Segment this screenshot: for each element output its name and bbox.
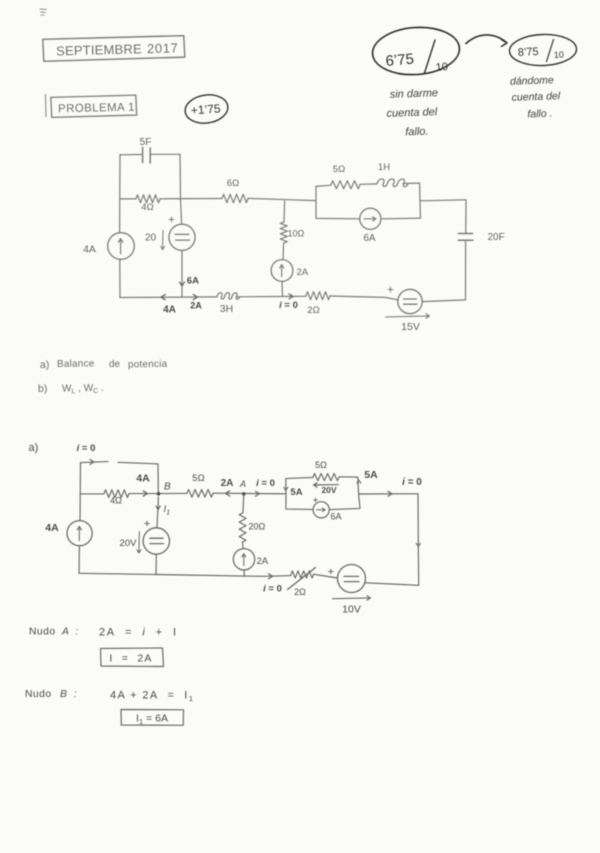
wire: circuit1 left vertical — [119, 155, 121, 298]
svg-text:I = 2A: I = 2A — [109, 653, 152, 665]
svg-text:b): b) — [38, 383, 48, 395]
wire: block to right vertical (circuit1) — [420, 200, 466, 201]
current source 6A (circuit2 block) — [313, 498, 341, 521]
current source 2A (circuit2) — [233, 549, 268, 570]
svg-text:A :: A : — [61, 627, 80, 638]
svg-text:20F: 20F — [488, 232, 505, 243]
wire: circuit1 top — [120, 153, 180, 156]
svg-text:20V: 20V — [321, 485, 336, 495]
svg-text:4Ω: 4Ω — [141, 202, 153, 213]
wire: 20V branch upper — [181, 199, 182, 225]
equation Nudo A — [29, 627, 178, 639]
resistor 2ohm crossed out (circuit2) — [288, 568, 316, 598]
svg-text:2A: 2A — [190, 301, 202, 311]
svg-text:sin darme: sin darme — [390, 87, 439, 101]
svg-text:4A: 4A — [45, 522, 59, 534]
wire: circuit2 left vertical — [79, 463, 81, 574]
svg-text:Nudo: Nudo — [29, 627, 56, 638]
svg-text:15V: 15V — [401, 321, 420, 333]
svg-text:5A: 5A — [290, 487, 302, 498]
wire: circuit2 right vertical — [416, 494, 420, 586]
svg-text:2Ω: 2Ω — [294, 587, 306, 597]
svg-text:3H: 3H — [220, 303, 233, 315]
svg-text:A: A — [239, 479, 246, 489]
voltage source 10V (circuit2) — [329, 565, 371, 616]
note dandome cuenta del fallo — [510, 74, 561, 120]
current arrow I1 (circuit2) — [156, 497, 170, 517]
svg-text:PROBLEMA 1: PROBLEMA 1 — [58, 102, 135, 116]
wire: 2A source to bottom (circuit2) — [243, 570, 245, 576]
resistor 20ohm (circuit2) — [239, 513, 265, 542]
current source 2A (circuit1) — [271, 260, 309, 282]
question b) WL WC — [38, 383, 104, 396]
svg-text:i = 0: i = 0 — [279, 300, 298, 311]
svg-text:8’75: 8’75 — [518, 46, 539, 59]
current source 4A (circuit2) — [45, 521, 92, 546]
boxed result I1 = 6A — [121, 710, 184, 727]
label i=0 (circuit2 right) — [402, 477, 422, 488]
svg-text:fallo.: fallo. — [405, 126, 429, 139]
points bubble +1'75 — [183, 92, 229, 126]
resistor 6ohm (circuit1) — [222, 178, 248, 203]
current arrow 2A (circuit1 bottom) — [190, 294, 202, 310]
svg-text:2A: 2A — [257, 556, 269, 567]
current label 5A right (circuit2 block) — [357, 469, 378, 483]
resistor 5ohm (circuit2 main) — [187, 473, 213, 497]
current arrow i=0 (circuit2 bottom) — [263, 574, 282, 595]
svg-text:10Ω: 10Ω — [288, 229, 305, 239]
problem box PROBLEMA 1 — [46, 95, 137, 118]
node B — [157, 482, 171, 496]
svg-text:10V: 10V — [342, 604, 361, 616]
current arrow i=0 (circuit2 top) — [77, 443, 96, 464]
resistor 10ohm (circuit1) — [280, 222, 304, 243]
wire: 20V source to bottom (circuit2) — [155, 554, 157, 574]
wire: 20V branch lower — [181, 250, 183, 297]
wire: circuit2 open top branch — [81, 462, 159, 494]
wire: cap-loop right vertical — [179, 154, 182, 198]
wire: circuit2 bottom — [79, 573, 419, 585]
svg-text:fallo .: fallo . — [527, 108, 553, 121]
resistor 5ohm (circuit2 block) — [313, 460, 339, 481]
wire: circuit1 second horizontal — [120, 198, 316, 200]
svg-text:cuenta del: cuenta del — [511, 90, 561, 104]
svg-text:20V: 20V — [120, 538, 138, 549]
equation Nudo B — [25, 689, 194, 703]
voltage source 20V (circuit1) — [145, 217, 195, 250]
svg-text:2A: 2A — [297, 267, 309, 278]
boxed result I = 2A — [101, 648, 164, 667]
svg-text:20Ω: 20Ω — [249, 522, 266, 532]
svg-text:6A: 6A — [363, 233, 376, 244]
svg-text:i = 0: i = 0 — [263, 584, 282, 595]
svg-text:10: 10 — [554, 49, 565, 60]
wire: node A down — [242, 494, 243, 549]
svg-text:6Ω: 6Ω — [227, 178, 239, 189]
svg-text:i = 0: i = 0 — [402, 477, 422, 488]
current label 5A left (circuit2 block) — [284, 487, 303, 498]
svg-text:a): a) — [29, 442, 39, 454]
svg-text:20: 20 — [145, 233, 157, 244]
note sin darme cuenta del fallo — [386, 87, 438, 138]
inductor 1H (circuit1 block) — [377, 162, 408, 187]
svg-text:5F: 5F — [140, 137, 152, 148]
svg-text:4A + 2A = I1: 4A + 2A = I1 — [110, 690, 194, 704]
svg-text:4A: 4A — [163, 305, 176, 316]
resistor 4ohm (circuit2) — [104, 490, 129, 506]
svg-text:6A: 6A — [187, 276, 199, 287]
svg-text:4Ω: 4Ω — [110, 496, 122, 506]
wire: block2 to right vertical — [360, 491, 418, 496]
svg-text:WL , WC .: WL , WC . — [62, 383, 104, 396]
svg-text:2A = i + I: 2A = i + I — [99, 627, 178, 639]
svg-text:Nudo: Nudo — [25, 689, 52, 700]
svg-text:5Ω: 5Ω — [333, 164, 345, 175]
current arrow 2A into node A — [221, 478, 234, 496]
svg-text:+1’75: +1’75 — [190, 101, 221, 117]
svg-text:2A: 2A — [221, 478, 234, 489]
svg-text:i = 0: i = 0 — [256, 478, 275, 489]
arrow between grade bubbles — [466, 35, 507, 46]
wire: circuit2 main horizontal — [80, 492, 286, 495]
svg-text:5A: 5A — [364, 469, 378, 481]
inductor 3H (circuit1 bottom) — [217, 293, 239, 315]
scuff mark top-left — [40, 9, 47, 15]
svg-text:B :: B : — [60, 689, 79, 700]
question a) Balance de potencia — [40, 358, 168, 371]
voltage arrow 20V (circuit2 block) — [314, 483, 339, 495]
svg-text:i = 0: i = 0 — [77, 443, 96, 454]
current arrow 4A (circuit2) — [136, 473, 150, 497]
resistor 4ohm (circuit1) — [136, 195, 160, 213]
wire: parallel block frame (circuit2) — [286, 477, 360, 510]
current arrow 6A (circuit1) — [180, 276, 200, 287]
svg-text:de: de — [109, 359, 121, 370]
capacitor 5F (circuit1) — [140, 137, 152, 163]
svg-text:2Ω: 2Ω — [307, 305, 319, 316]
svg-text:Balance: Balance — [57, 358, 95, 370]
wire: 10ohm branch — [282, 201, 285, 297]
svg-text:B: B — [164, 482, 171, 493]
resistor 5ohm (circuit1 block) — [331, 164, 360, 189]
wire: circuit1 bottom — [120, 296, 466, 302]
svg-text:dándome: dándome — [510, 74, 554, 88]
label a) solution — [29, 442, 39, 454]
svg-text:5Ω: 5Ω — [315, 460, 327, 470]
svg-text:5Ω: 5Ω — [192, 473, 204, 484]
node A — [239, 479, 246, 496]
svg-text:potencia: potencia — [128, 359, 168, 371]
svg-text:SEPTIEMBRE: SEPTIEMBRE — [56, 41, 142, 58]
svg-text:6’75: 6’75 — [385, 51, 415, 70]
current source 4A (circuit1) — [83, 233, 134, 260]
svg-text:cuenta del: cuenta del — [386, 106, 438, 120]
capacitor 20F (circuit1) — [458, 232, 504, 243]
svg-text:10: 10 — [435, 61, 448, 74]
svg-text:6A: 6A — [331, 512, 342, 522]
svg-text:1H: 1H — [378, 162, 390, 173]
grade bubble 8'75/10 — [509, 33, 577, 66]
title box SEPTIEMBRE 2017 — [43, 36, 185, 62]
resistor 2ohm (circuit1) — [306, 292, 330, 316]
wire: parallel block frame (circuit1) — [316, 183, 420, 219]
wire: circuit1 right vertical — [465, 200, 468, 300]
current arrow i=0 (circuit1 bottom) — [279, 294, 298, 311]
current source 6A (circuit1 block) — [360, 208, 381, 244]
current arrow i=0 right of node A — [256, 478, 275, 496]
grade bubble 6'75/10 — [371, 25, 461, 78]
voltage source 20V (circuit2) — [120, 521, 170, 554]
voltage source 15V (circuit1) — [386, 287, 430, 333]
wire: node B to 20V source — [157, 510, 158, 528]
svg-text:4A: 4A — [136, 473, 150, 485]
svg-text:4A: 4A — [83, 244, 96, 256]
current arrow 4A (circuit1 bottom) — [161, 295, 176, 316]
svg-text:a): a) — [40, 359, 50, 371]
svg-text:2017: 2017 — [147, 40, 179, 56]
